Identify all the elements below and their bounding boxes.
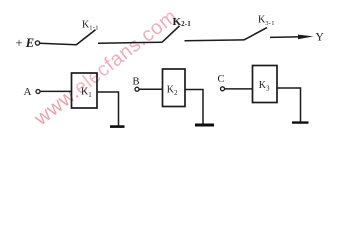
wire B to relay K2 (139, 88, 162, 90)
svg-text:K2-1: K2-1 (173, 16, 192, 28)
svg-text:B: B (133, 77, 140, 88)
svg-text:A: A (24, 86, 32, 98)
svg-text:Y: Y (316, 32, 325, 44)
terminal circle +E (35, 41, 39, 45)
wire relay K3 to ground (277, 88, 301, 122)
ground for K2 (195, 124, 214, 127)
svg-text:C: C (218, 74, 225, 85)
relay coil K1 box (72, 73, 98, 108)
wire A to relay K1 (40, 90, 71, 92)
relay coil K3 box (253, 66, 278, 103)
svg-text:K2: K2 (167, 85, 178, 98)
ground for K3 (292, 121, 309, 123)
svg-text:K3: K3 (259, 80, 270, 93)
terminal circle A (36, 90, 40, 94)
svg-text:K3-1: K3-1 (258, 15, 275, 28)
svg-text:www.elecfans.com: www.elecfans.com (30, 5, 182, 130)
wire switch K1-1 to switch K2-1 (98, 41, 162, 44)
terminal circle C (221, 87, 225, 91)
wire switch K2-1 to switch K3-1 (185, 39, 245, 42)
terminal circle B (135, 87, 139, 91)
relay coil K2 box (163, 69, 186, 107)
wire relay K1 to ground (97, 92, 119, 126)
wire switch K3-1 to Y with arrowhead (270, 36, 303, 39)
wire C to relay K3 (225, 88, 253, 90)
switch K2-1 blade (162, 26, 180, 43)
switch K3-1 blade (244, 28, 267, 40)
svg-text:+ E: + E (16, 36, 35, 50)
arrowhead (298, 35, 314, 40)
watermark www.elecfans.com (30, 5, 182, 130)
wire +E to switch K1-1 (40, 43, 76, 45)
switch K1-1 blade (76, 30, 96, 45)
svg-text:K1-1: K1-1 (82, 20, 99, 32)
ground for K1 (110, 125, 125, 128)
wire relay K2 to ground (185, 90, 203, 125)
